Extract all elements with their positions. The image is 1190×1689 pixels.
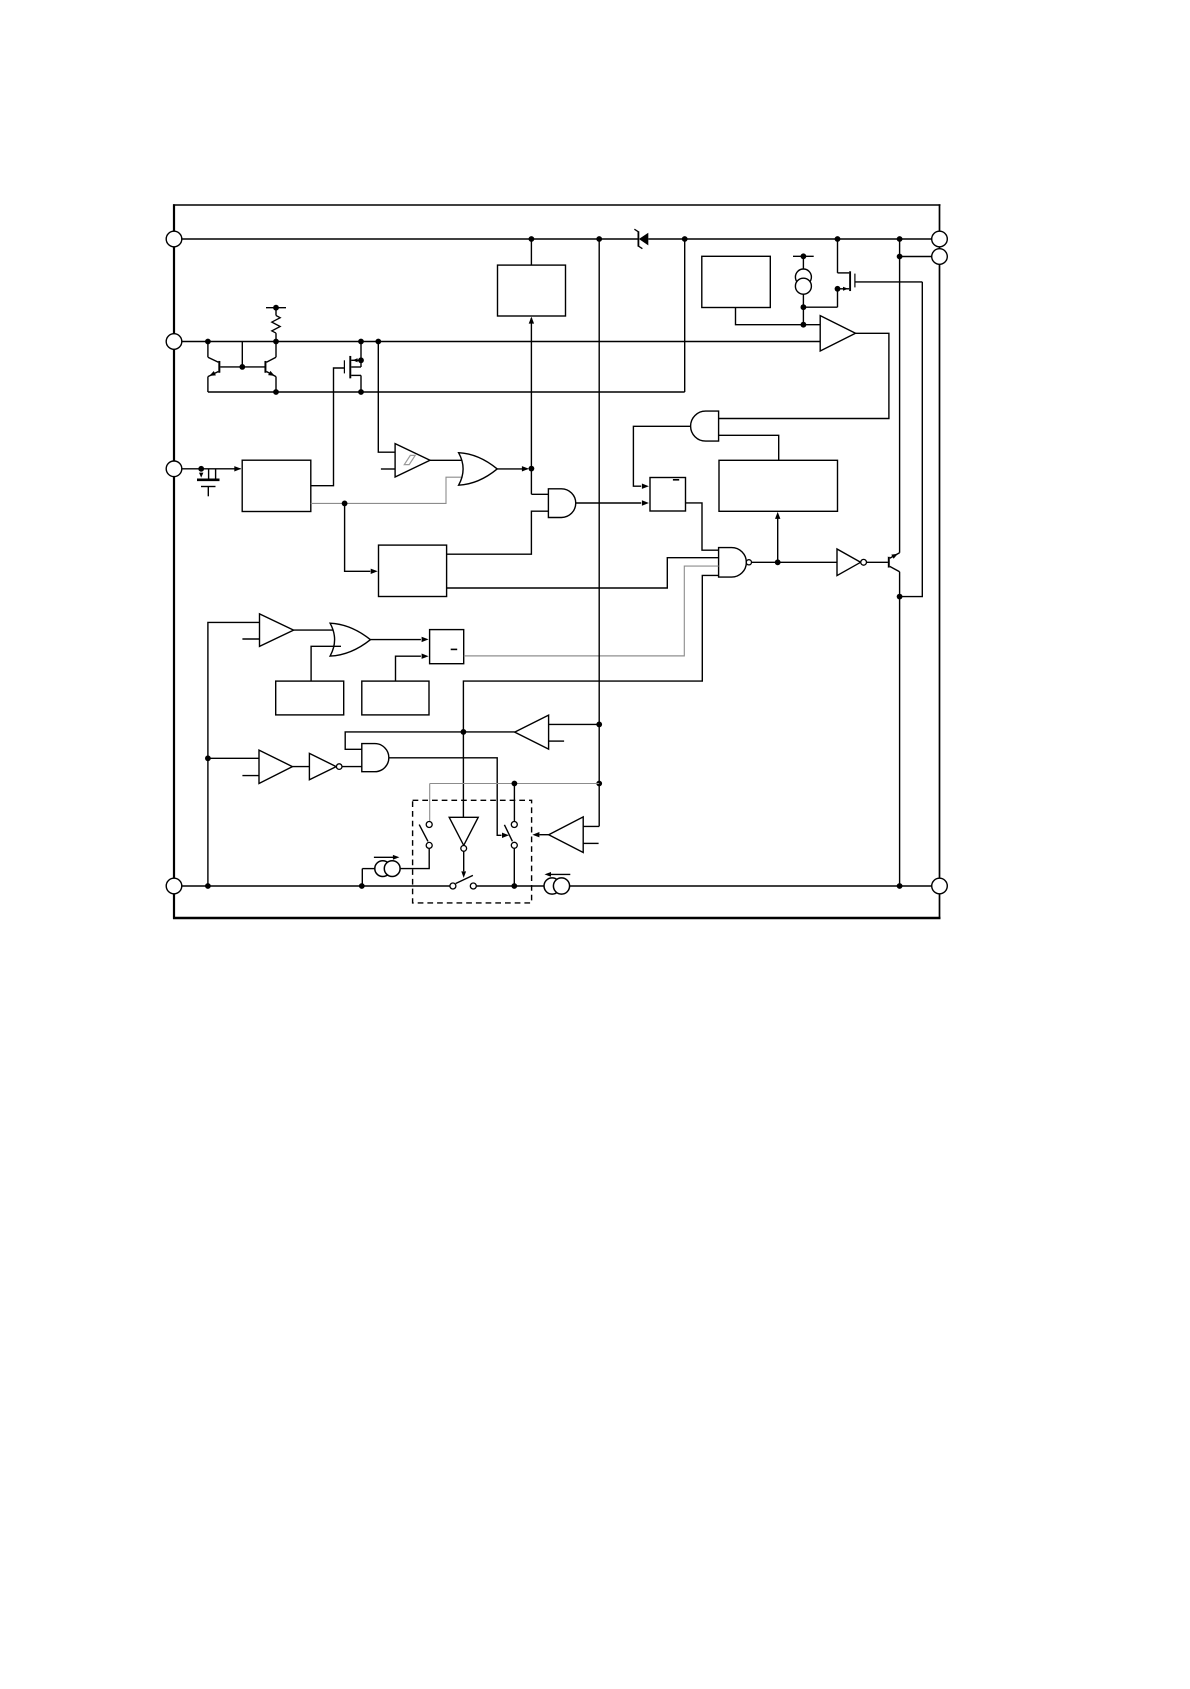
wire NAND1 input3 gray	[464, 566, 719, 656]
wire NAND1 input4	[463, 575, 718, 817]
wire U2 bottom feed	[530, 318, 532, 494]
wire SW-L to CS2	[401, 848, 430, 868]
wire pin3 input	[182, 468, 241, 470]
wire AND1 output	[633, 426, 690, 486]
nand gate NAND1	[719, 548, 747, 578]
wire U4 bottom feed	[777, 514, 779, 562]
current source CS2	[362, 857, 400, 886]
transistor Q3 arrow	[891, 554, 898, 559]
block U3 reference	[702, 256, 771, 307]
inverter INV3 bubble	[461, 846, 467, 852]
wire OR1 output	[497, 468, 527, 470]
current source CS3	[544, 874, 570, 894]
wire B1 output	[463, 731, 514, 733]
pin P5 top-right	[932, 231, 948, 247]
node pin3 junction	[198, 466, 204, 472]
wire SW-L feed gray	[429, 784, 431, 821]
wire AND3 upper input	[345, 732, 463, 749]
block U8 timer1	[276, 681, 344, 715]
wire M1 gate	[311, 368, 345, 486]
node CS1 bottom junction	[801, 304, 807, 310]
node junction VCC-C	[682, 236, 688, 242]
resistor R1	[266, 308, 286, 342]
wire CS1 to M2 source	[803, 306, 837, 308]
buffer B1 left-facing	[515, 715, 549, 749]
buffer B2 left-facing	[549, 817, 584, 853]
wire VCC-A to block U2	[530, 239, 532, 265]
pin P7 bottom-right	[932, 878, 948, 894]
wire AND1 lower input	[719, 435, 779, 460]
inverter INV2	[309, 753, 336, 779]
transistor Q3	[888, 239, 900, 886]
node U1 output junction	[342, 501, 348, 507]
wire base to rail2	[241, 342, 243, 367]
node ground junction b	[359, 883, 365, 889]
node M1 source junction	[358, 389, 364, 395]
wire Q3 emitter to gate line	[900, 282, 923, 597]
wire T2 stub	[242, 775, 259, 777]
wire pin6 stub	[900, 256, 932, 258]
wire AND2 lower input	[447, 511, 549, 554]
arrow into delay block	[371, 569, 378, 574]
switch SW-R	[504, 822, 517, 849]
wire U1 to OR1 gray	[311, 477, 465, 503]
wire to B2 input	[583, 825, 599, 827]
wire T2 input	[208, 757, 259, 759]
node T2 input junction	[205, 755, 211, 761]
latch U7	[430, 630, 464, 664]
or gate OR2	[330, 623, 370, 656]
arrow into block U1	[234, 466, 241, 471]
transistor Q2	[265, 342, 277, 393]
inverter INV1 bubble	[861, 559, 867, 565]
node ground junction a	[205, 883, 211, 889]
arrow SW1 control	[461, 871, 466, 878]
node M2 source junction	[835, 286, 841, 292]
inverter INV2 bubble	[336, 764, 342, 770]
arrow into latch U7 lower	[422, 654, 429, 659]
node junction rail2-b	[273, 339, 279, 345]
node junction VCC-E	[897, 236, 903, 242]
switch SW-L	[419, 822, 432, 849]
chip outline border	[173, 204, 941, 919]
wire SW-R to ground rail	[513, 848, 515, 886]
wire AND3 output to switch SW2 control	[389, 758, 502, 836]
arrow B2 output	[532, 832, 539, 837]
wire soft-start gray line	[430, 783, 600, 785]
nand NAND1 bubble	[746, 560, 751, 565]
or gate OR1	[459, 453, 498, 486]
node base junction	[239, 364, 245, 370]
arrow CS2 direction	[393, 855, 400, 860]
node junction VCC-B	[596, 236, 602, 242]
wire T1 stub	[242, 638, 259, 640]
comparator CMP1	[820, 316, 855, 351]
arrow into U2	[529, 317, 534, 324]
wire Q1-Q2 base	[220, 366, 264, 368]
wire VCC-C drop	[684, 239, 686, 392]
wire T1 input	[208, 622, 260, 886]
latch U5	[650, 478, 686, 512]
latch U7 qbar mark	[451, 648, 458, 650]
wire B2 stub	[583, 842, 598, 844]
arrow OR1 output	[522, 466, 529, 471]
zener diode D1	[634, 229, 648, 249]
wire B1 stub	[549, 740, 565, 742]
pin P2 left	[166, 334, 182, 350]
transistor Q2 emitter arrow	[268, 371, 275, 376]
node comparator input junction	[801, 322, 807, 328]
MOSFET M1 bulk arrow	[352, 358, 357, 362]
and gate AND3	[362, 744, 389, 772]
node gray line junction	[596, 781, 602, 787]
arrow into latch U5 lower	[642, 500, 649, 505]
wire ST1 input	[378, 342, 395, 453]
pin P4 bottom-left	[166, 878, 182, 894]
wire OR2 lower input	[311, 646, 341, 681]
arrow into latch U5 upper	[642, 484, 649, 489]
wire U3 output	[736, 308, 821, 325]
hysteresis glyph	[404, 455, 415, 464]
node R1 top tap	[273, 305, 279, 311]
wire INV3 to SW1 control	[463, 851, 465, 871]
wire T1 output	[294, 629, 338, 631]
node CS1 top tap	[801, 253, 807, 259]
node junction rail2-d	[375, 339, 381, 345]
wire U7 output gray	[464, 655, 685, 657]
node B1 output junction	[461, 729, 467, 735]
node M1 drain junction	[358, 357, 364, 363]
block U2 oscillator	[498, 265, 566, 316]
latch U5 qbar mark	[673, 479, 679, 481]
pin P3 left	[166, 461, 182, 477]
block U9 timer2	[362, 681, 429, 715]
wire B1 input	[549, 723, 599, 725]
wire SW-R feed	[513, 784, 515, 822]
block U4 control logic	[719, 460, 838, 511]
current source CS1	[793, 256, 814, 307]
and gate AND2	[548, 489, 575, 518]
node ground junction c	[511, 883, 517, 889]
wire CMP1 output	[719, 333, 889, 418]
node junction rail2-a	[205, 339, 211, 345]
arrow SW2 control	[502, 833, 509, 838]
arrow CS3 direction	[545, 872, 552, 877]
wire B2 output	[540, 834, 549, 836]
wire pin2 rail	[182, 341, 820, 343]
wire INV2 to AND3	[292, 766, 309, 768]
node junction VCC-D	[835, 236, 841, 242]
wire AND2 output	[576, 502, 641, 504]
arrow into U4	[775, 512, 780, 519]
wire OR2 output	[370, 639, 421, 641]
block U1 bandgap	[242, 460, 311, 511]
switch SW1 on ground rail	[450, 875, 476, 889]
and gate AND1 mirrored	[691, 411, 719, 441]
inverter INV1	[837, 549, 861, 576]
wire CS1 to comparator	[802, 307, 804, 325]
MOSFET M2 bulk arrow	[843, 287, 848, 291]
pin P6 right	[932, 249, 948, 265]
arrow into latch U7 upper	[422, 637, 429, 642]
node junction VCC-A	[529, 236, 535, 242]
transistor Q1	[208, 342, 220, 393]
block U6 delay	[379, 545, 447, 596]
wire drop to delay block	[345, 503, 371, 571]
buffer T1	[260, 614, 294, 647]
wire U5 output to NAND	[686, 503, 719, 550]
transistor Q1 emitter arrow	[209, 371, 216, 376]
wire M2 gate	[855, 281, 922, 283]
node junction rail2-c	[358, 339, 364, 345]
buffer T2	[259, 750, 292, 783]
wire U6 lower output	[447, 558, 719, 588]
pin P1 top-left	[166, 231, 182, 247]
dashed test-mode box	[413, 800, 532, 903]
MOSFET M2	[838, 239, 855, 291]
wire ST1 output	[430, 459, 466, 461]
MOSFET M1	[344, 342, 361, 393]
wire U9 output	[396, 656, 421, 681]
node ground junction d	[897, 883, 903, 889]
wire VCC-B vertical	[598, 239, 600, 826]
wire NAND1 output	[752, 561, 838, 563]
wire mirror bottom rail	[208, 391, 685, 393]
node NAND1 output junction	[775, 559, 781, 565]
node B1 input junction	[596, 722, 602, 728]
wire VCC top rail	[182, 238, 639, 240]
inverter INV3 down-facing	[449, 817, 478, 845]
node pin6 junction	[897, 254, 903, 260]
wire INV1 to Q3 base	[867, 561, 888, 563]
MOS capacitor arrow	[199, 473, 203, 478]
wire ground rail	[182, 885, 450, 887]
wire ST1 stub	[381, 468, 395, 470]
MOS capacitor at pin3	[197, 469, 220, 497]
node Q3 emitter junction	[897, 594, 903, 600]
schmitt trigger ST1	[395, 444, 430, 477]
node SW-R feed junction	[512, 781, 518, 787]
node OR1-AND2 junction	[529, 466, 535, 472]
node Q2 emitter junction	[273, 389, 279, 395]
